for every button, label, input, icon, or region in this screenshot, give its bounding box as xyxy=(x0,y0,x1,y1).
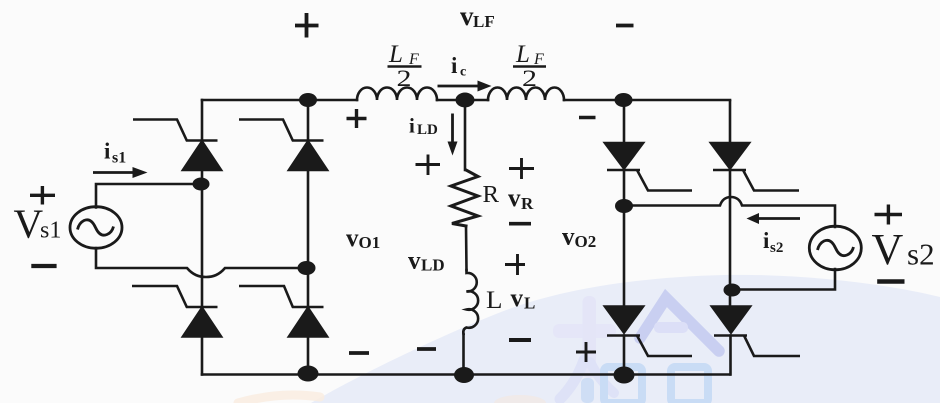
minus Vs2 xyxy=(877,279,904,284)
svg-text:i: i xyxy=(763,228,770,253)
minus mid-right of node xyxy=(579,116,596,119)
svg-text:2: 2 xyxy=(397,66,412,91)
resistor R zigzag xyxy=(451,170,478,226)
inductor L coil xyxy=(463,270,478,334)
svg-text:v: v xyxy=(460,1,474,31)
wire load branch xyxy=(464,100,467,375)
junction node bottom rail / load branch xyxy=(454,367,474,383)
svg-text:O1: O1 xyxy=(359,233,381,252)
arrow i_LD xyxy=(448,114,458,156)
wire source2 bottom xyxy=(732,269,835,290)
svg-text:R: R xyxy=(521,194,534,213)
junction node leg2 / source Vs1 bottom xyxy=(298,261,316,275)
svg-text:s1: s1 xyxy=(40,218,61,244)
junction node top rail / leg2 xyxy=(299,93,317,107)
svg-text:L: L xyxy=(388,41,403,68)
svg-text:v: v xyxy=(511,285,524,312)
inductor LF/2 right xyxy=(488,88,564,101)
plus Vs1 xyxy=(30,186,55,205)
svg-text:v: v xyxy=(346,225,359,252)
svg-text:s2: s2 xyxy=(907,237,935,272)
svg-text:V: V xyxy=(872,225,904,274)
thyristor T5 xyxy=(605,143,692,191)
thyristor T7 xyxy=(605,307,692,357)
wire source1 top xyxy=(96,184,201,208)
svg-text:c: c xyxy=(460,65,466,80)
watermark glyph xyxy=(238,296,719,403)
svg-text:V: V xyxy=(14,201,44,247)
junction node bottom rail / leg2 xyxy=(298,366,319,382)
svg-text:v: v xyxy=(508,185,521,212)
source Vs1 xyxy=(70,207,122,249)
wire rail4 xyxy=(729,101,732,375)
svg-text:i: i xyxy=(451,53,458,78)
thyristor T2 xyxy=(239,120,327,171)
thyristor T6 xyxy=(711,143,799,191)
junction node leg3 / source Vs2 top xyxy=(615,199,633,213)
wire rail1 xyxy=(201,100,204,375)
minus bottom rail 1 xyxy=(349,351,369,355)
svg-text:O2: O2 xyxy=(575,232,597,251)
svg-text:i: i xyxy=(104,139,111,164)
minus vLF right xyxy=(616,24,634,28)
arrow i_s1 xyxy=(93,167,148,178)
svg-text:LD: LD xyxy=(421,256,445,275)
thyristor T4 xyxy=(239,286,327,337)
arrow i_c xyxy=(438,81,492,92)
plus vLD-L xyxy=(505,254,525,275)
svg-text:v: v xyxy=(562,224,575,251)
minus Vs1 xyxy=(31,264,56,268)
junction node top rail / load branch xyxy=(456,93,475,108)
wire top rail xyxy=(202,99,730,102)
minus vL bottom xyxy=(509,338,531,342)
wire rail2 xyxy=(307,100,310,375)
junction node bottom rail / leg3 xyxy=(614,367,635,384)
minus vR xyxy=(509,222,531,226)
wire source1 bottom with hop xyxy=(96,248,307,277)
thyristor T8 xyxy=(712,307,800,357)
svg-text:s2: s2 xyxy=(770,240,783,256)
source Vs2 xyxy=(809,226,861,270)
svg-text:R: R xyxy=(483,182,500,208)
plus vR xyxy=(509,158,534,179)
wire rail3 xyxy=(623,101,626,375)
svg-text:s1: s1 xyxy=(112,150,126,167)
plus bottom right bridge xyxy=(576,342,596,362)
svg-text:LD: LD xyxy=(417,122,438,138)
svg-text:2: 2 xyxy=(522,66,537,91)
plus vLF left xyxy=(295,13,319,38)
arrow i_s2 xyxy=(747,213,801,224)
junction node top rail / leg3 xyxy=(615,93,633,107)
plus Vs2 xyxy=(875,205,903,225)
thyristor T3 xyxy=(132,286,221,337)
svg-text:L: L xyxy=(524,294,535,313)
wire bottom rail xyxy=(202,373,730,376)
junction node leg4 / source Vs2 bottom xyxy=(724,284,741,297)
minus bottom rail 2 xyxy=(417,347,436,351)
inductor LF/2 left xyxy=(357,88,437,101)
svg-text:L: L xyxy=(515,41,530,68)
svg-text:L: L xyxy=(486,287,503,314)
svg-text:LF: LF xyxy=(473,12,495,31)
svg-text:i: i xyxy=(409,114,415,138)
watermark ellipse blob xyxy=(311,275,940,403)
plus above R xyxy=(416,155,441,176)
junction node leg1 / source Vs1 top xyxy=(193,178,210,191)
wire source2 top with hop xyxy=(624,197,835,227)
plus mid-left of node xyxy=(347,109,367,128)
svg-text:v: v xyxy=(408,248,421,275)
thyristor T1 xyxy=(133,120,221,171)
